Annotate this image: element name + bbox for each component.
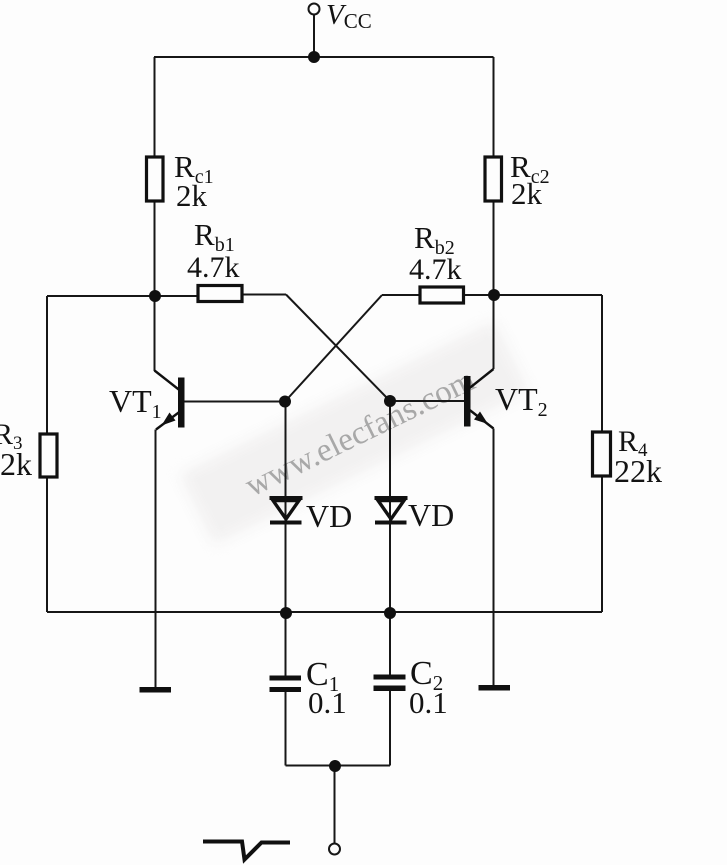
resistor Rb1 xyxy=(198,286,242,302)
wire Rb1 to bend xyxy=(242,294,286,296)
wire collector node to VT1 collector xyxy=(154,296,156,371)
wire bottom rail xyxy=(47,611,602,613)
transistor VT1 xyxy=(155,371,185,430)
resistor R3 xyxy=(40,434,57,477)
node output junction xyxy=(329,760,341,772)
node Vcc junction xyxy=(308,51,320,63)
resistor Rb2 xyxy=(420,287,464,303)
wire VT1 base node to diode VD1 and bottom node xyxy=(285,402,287,614)
svg-text:VT1: VT1 xyxy=(109,383,162,423)
wire collector node to VT2 collector xyxy=(493,295,495,369)
node VT2 collector junction xyxy=(488,289,500,301)
wire C2 upper lead xyxy=(389,613,391,675)
power terminal Vcc circle xyxy=(309,4,320,15)
resistor R4 xyxy=(593,432,611,476)
wire VT1 emitter down xyxy=(155,430,157,688)
wire output join xyxy=(286,765,391,767)
wire Rc1 to collector node xyxy=(154,201,156,296)
transistor VT2 xyxy=(464,369,494,429)
waveform symbol xyxy=(203,842,290,860)
node VT1 collector junction xyxy=(149,290,161,302)
node VT1 base junction xyxy=(279,396,291,408)
wire to output terminal xyxy=(334,766,336,844)
svg-text:2k: 2k xyxy=(511,176,543,211)
wire VT2 base xyxy=(390,400,464,402)
ground for VT1 emitter xyxy=(140,687,172,693)
svg-text:22k: 22k xyxy=(614,453,662,489)
wire VT2 base node to diode VD2 and bottom node xyxy=(389,401,391,613)
node C1 top junction xyxy=(280,607,292,619)
wire VT2 emitter down xyxy=(493,429,495,686)
ground for VT2 emitter xyxy=(479,685,511,691)
wire VT1 base xyxy=(185,401,286,403)
capacitor C2 xyxy=(374,675,406,692)
diode VD2 xyxy=(375,496,408,525)
wire right collector branch upper xyxy=(493,57,495,157)
wire left base row xyxy=(47,295,198,297)
wire right rail horizontal xyxy=(494,294,602,296)
svg-text:4.7k: 4.7k xyxy=(409,253,462,286)
wire cross-coupling Rb1 to VT2 base xyxy=(286,295,390,402)
wire cross-coupling Rb2 to VT1 base xyxy=(285,295,382,402)
wire Vcc lead xyxy=(313,15,315,58)
wire Rb2 to VT2 collector node xyxy=(464,294,495,296)
svg-text:0.1: 0.1 xyxy=(308,685,347,720)
svg-text:VD: VD xyxy=(408,497,454,533)
wire left collector branch upper xyxy=(154,57,156,157)
svg-text:0.1: 0.1 xyxy=(409,685,448,720)
wire Rb2 bend to Rb2 xyxy=(382,294,420,296)
node C2 top junction xyxy=(384,607,396,619)
svg-text:VD: VD xyxy=(306,498,352,534)
resistor Rc2 xyxy=(485,157,502,201)
resistor Rc1 xyxy=(147,157,164,201)
diode VD1 xyxy=(270,496,303,525)
wire C1 upper lead xyxy=(285,613,287,676)
svg-text:VT2: VT2 xyxy=(495,381,548,421)
wire right rail vertical xyxy=(601,295,603,612)
wire left rail vertical xyxy=(46,296,48,612)
svg-text:VCC: VCC xyxy=(326,0,372,33)
node VT2 base junction xyxy=(384,395,396,407)
svg-text:4.7k: 4.7k xyxy=(187,251,240,284)
watermark background band xyxy=(180,321,529,545)
wire C1 lower lead xyxy=(285,692,287,766)
wire Rc2 to node xyxy=(493,201,495,295)
wire top rail xyxy=(154,56,494,58)
wire C2 lower lead xyxy=(389,691,391,766)
terminal output xyxy=(329,844,340,855)
svg-text:2k: 2k xyxy=(0,446,32,482)
capacitor C1 xyxy=(270,676,302,693)
svg-text:2k: 2k xyxy=(176,178,208,213)
watermark www.elecfans.com xyxy=(240,362,481,504)
